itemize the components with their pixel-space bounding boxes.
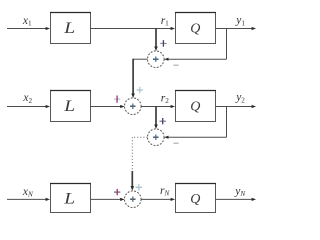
plus label top input S2 [160, 118, 166, 124]
plus label left input A3 [114, 189, 120, 195]
wire output y1 [216, 27, 257, 30]
plus label top input A3 [136, 184, 142, 190]
block L3 [50, 184, 91, 213]
block L1 [50, 13, 91, 44]
summing node A2 [125, 98, 142, 115]
svg-text:L: L [63, 189, 75, 207]
wire S2 to A3 dotted then solid [131, 137, 148, 190]
svg-text:L: L [63, 97, 75, 115]
block Q3 [175, 184, 216, 213]
block L2 [50, 91, 91, 122]
wire A2 to Q2 [141, 105, 175, 108]
wire output y2 [216, 105, 257, 108]
wire input x1 [7, 27, 50, 30]
wire L3 to A3 [91, 198, 125, 201]
wire feedback y2 to S2 [164, 107, 226, 139]
wire S1 to A2 [131, 59, 147, 98]
wire feedback y1 to S1 [164, 29, 226, 61]
plus sign inside A2 [130, 104, 135, 109]
wire A3 to Q3 [141, 198, 175, 201]
wire input xN [7, 198, 50, 201]
svg-text:Q: Q [190, 192, 200, 207]
svg-text:L: L [63, 19, 75, 37]
wire L2 to A2 [91, 105, 125, 108]
wire L1 to Q1 [91, 27, 176, 30]
plus sign inside A3 [130, 197, 135, 202]
wire branch r1 down to S1 [154, 28, 158, 51]
wire branch r2 down to S2 [154, 106, 158, 129]
block Q1 [175, 13, 216, 44]
wire output yN [216, 198, 257, 201]
wire input x2 [7, 105, 50, 108]
plus label top input S1 [160, 40, 166, 47]
plus sign inside S2 [153, 135, 158, 140]
plus label top input A2 [137, 87, 143, 93]
plus sign inside S1 [153, 57, 158, 62]
svg-text:Q: Q [190, 22, 200, 37]
summing node S2 [148, 129, 165, 146]
plus label left input A2 [114, 96, 120, 103]
svg-text:Q: Q [190, 100, 200, 115]
minus label S2 [174, 142, 179, 144]
minus label S1 [174, 64, 179, 66]
summing node S1 [148, 51, 165, 68]
block Q2 [175, 91, 216, 122]
summing node A3 [125, 191, 142, 208]
